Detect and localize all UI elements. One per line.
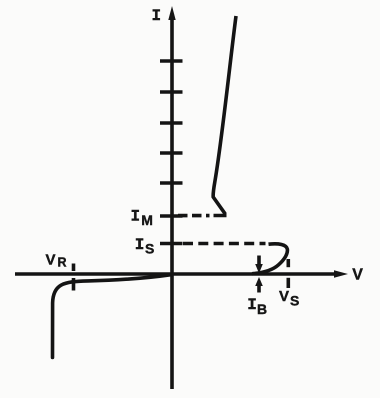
svg-text:V: V	[279, 288, 289, 305]
svg-text:B: B	[257, 301, 267, 317]
svg-text:I: I	[135, 236, 145, 254]
svg-text:M: M	[141, 212, 153, 228]
svg-text:I: I	[152, 7, 162, 25]
svg-text:S: S	[290, 293, 299, 309]
svg-text:S: S	[145, 241, 154, 257]
svg-text:V: V	[352, 267, 363, 284]
svg-text:I: I	[247, 296, 257, 314]
svg-text:V: V	[46, 251, 56, 268]
svg-text:R: R	[58, 256, 67, 270]
svg-text:I: I	[131, 208, 141, 226]
